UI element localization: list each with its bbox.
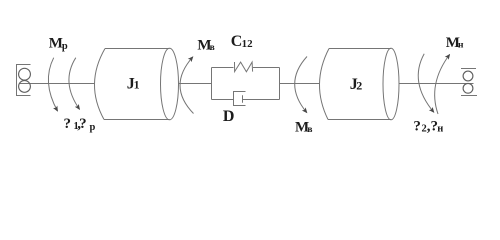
bearing right roller top xyxy=(463,71,473,81)
label Mp xyxy=(49,36,68,53)
spring C12 zigzag xyxy=(235,62,253,72)
svg-text:12: 12 xyxy=(242,38,254,50)
svg-text:1: 1 xyxy=(134,78,140,92)
damper D cylinder xyxy=(234,92,246,106)
wire shaft segment bearing-to-J1 xyxy=(19,83,95,85)
inertia J2 cylinder bottom edge xyxy=(328,119,391,121)
wire top branch right lead xyxy=(253,67,280,69)
coupling frame left vertical xyxy=(211,68,213,100)
svg-text:н: н xyxy=(437,123,443,134)
svg-text:p: p xyxy=(62,41,68,52)
inertia J1 cylinder bottom edge xyxy=(104,119,170,121)
svg-text:?: ? xyxy=(64,116,72,132)
label J1 xyxy=(127,75,140,92)
svg-text:M: M xyxy=(49,36,63,52)
label phi1 phi p xyxy=(64,116,96,133)
label phi2 phi n xyxy=(413,118,443,134)
torque arrow arc phi1 inner xyxy=(69,58,80,110)
label Mv left xyxy=(197,38,214,54)
wire shaft segment J1-to-coupling xyxy=(179,83,212,85)
torque arrow arc Mp outer xyxy=(48,58,57,111)
wire shaft segment J2-to-bearing xyxy=(399,83,474,85)
inertia J2 cylinder top edge xyxy=(329,48,391,50)
svg-text:D: D xyxy=(223,108,235,125)
inertia J1 cylinder left face arc xyxy=(94,49,105,120)
label C12 xyxy=(231,33,253,50)
wire top branch left lead xyxy=(212,67,234,69)
bearing right top plate xyxy=(461,68,476,70)
bearing left roller top xyxy=(19,68,31,80)
inertia J1 cylinder right face ellipse xyxy=(161,48,179,120)
torque arrow arc Mv left xyxy=(180,57,193,114)
inertia J1 cylinder top edge xyxy=(105,48,170,50)
inertia J2 cylinder left face arc xyxy=(319,49,329,120)
inertia J2 cylinder right face ellipse xyxy=(383,48,399,120)
damper D piston xyxy=(242,95,244,102)
damper D rod xyxy=(243,99,280,101)
svg-text:в: в xyxy=(210,43,215,53)
wire shaft segment coupling-to-J2 xyxy=(280,83,321,85)
bearing left bracket xyxy=(17,65,31,96)
torque arrow arc phi2 xyxy=(418,54,434,112)
svg-text:p: p xyxy=(90,122,96,133)
label Mn xyxy=(446,35,464,51)
svg-text:?: ? xyxy=(79,116,87,132)
bearing left roller bottom xyxy=(19,81,31,93)
torque arrow arc Mn xyxy=(435,55,450,115)
svg-text:2: 2 xyxy=(356,78,362,92)
coupling frame right vertical xyxy=(279,68,281,100)
torque arrow arc Mv right xyxy=(295,57,307,113)
bearing right roller bottom xyxy=(463,83,473,93)
label Mv right xyxy=(295,119,313,135)
label J2 xyxy=(350,76,362,93)
svg-text:?: ? xyxy=(413,118,421,134)
svg-text:в: в xyxy=(307,125,312,135)
svg-text:н: н xyxy=(458,41,464,51)
bearing right bottom plate xyxy=(461,95,477,97)
wire bottom branch left lead xyxy=(212,99,234,101)
